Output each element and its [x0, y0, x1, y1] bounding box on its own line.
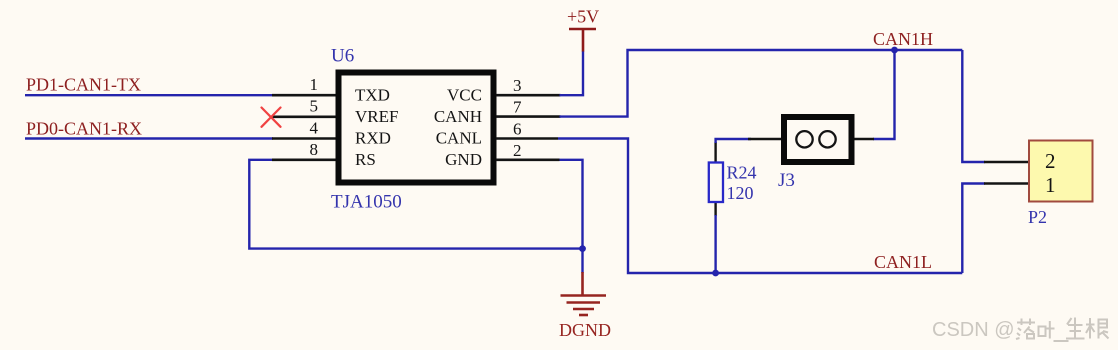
- wire PD0-CAN1-RX net: [25, 137, 273, 139]
- svg-text:RS: RS: [355, 150, 376, 169]
- svg-text:TJA1050: TJA1050: [331, 192, 402, 213]
- svg-text:PD0-CAN1-RX: PD0-CAN1-RX: [26, 119, 142, 139]
- junction RS/GND net: [579, 245, 586, 252]
- wire CANL down and across to CAN1L: [558, 139, 962, 274]
- watermark underscore: [1054, 340, 1069, 342]
- svg-text:GND: GND: [445, 150, 482, 169]
- pin 7 CANH stub: [496, 115, 561, 118]
- pin 4 RXD stub: [272, 137, 336, 140]
- svg-text:VCC: VCC: [447, 86, 482, 105]
- wire J3 right pin to CAN1H: [873, 50, 895, 139]
- svg-text:VREF: VREF: [355, 107, 398, 126]
- wire CANH up and across to CAN1H: [560, 50, 963, 117]
- svg-text:PD1-CAN1-TX: PD1-CAN1-TX: [26, 75, 141, 95]
- svg-text:DGND: DGND: [559, 320, 611, 340]
- jumper J3 body: [748, 117, 874, 162]
- 生: [1066, 318, 1085, 339]
- wire CAN1L to P2 pin 1: [962, 184, 985, 274]
- svg-text:TXD: TXD: [355, 86, 390, 105]
- svg-text:CAN1H: CAN1H: [873, 29, 933, 49]
- no-connect X on pin 5: [262, 108, 281, 127]
- svg-text:CANL: CANL: [436, 129, 482, 148]
- svg-text:+5V: +5V: [567, 7, 599, 27]
- wire GND pin to digital ground: [560, 160, 583, 273]
- resistor R24 body: [709, 142, 723, 273]
- svg-text:3: 3: [513, 76, 522, 95]
- pin 3 VCC stub: [496, 94, 561, 97]
- svg-text:2: 2: [1045, 149, 1056, 173]
- wire PD1-CAN1-TX net: [25, 94, 273, 96]
- pin 8 RS stub: [272, 159, 336, 162]
- svg-text:U6: U6: [331, 46, 354, 67]
- svg-text:RXD: RXD: [355, 129, 391, 148]
- P2 pin 2 stub: [984, 161, 1029, 164]
- wire RS to ground net: [249, 160, 582, 249]
- svg-text:4: 4: [310, 119, 319, 138]
- P2 pin 1 stub: [984, 182, 1029, 185]
- connector P2 body: [1029, 141, 1093, 202]
- watermark CJK glyph strokes: [1016, 318, 1109, 340]
- pin 6 CANL stub: [496, 137, 558, 140]
- wire R24 top to J3 left pin: [716, 139, 751, 143]
- pin 5 VREF stub: [270, 116, 336, 119]
- svg-text:CANH: CANH: [434, 107, 482, 126]
- svg-text:5: 5: [310, 97, 319, 116]
- svg-text:6: 6: [513, 120, 522, 139]
- ground DGND: [561, 272, 607, 315]
- svg-text:R24: R24: [727, 163, 757, 183]
- svg-text:120: 120: [727, 183, 754, 203]
- op-amp-style IC body U6: [339, 73, 494, 183]
- svg-text:8: 8: [310, 140, 319, 159]
- junction at CAN1L / R24 branch: [712, 270, 719, 277]
- 落: [1016, 319, 1035, 340]
- wire VCC to +5V: [560, 51, 584, 95]
- svg-text:CSDN @: CSDN @: [932, 319, 1015, 341]
- wire CAN1H to P2 pin 2: [962, 50, 985, 162]
- power symbol +5V: [569, 29, 596, 52]
- svg-text:2: 2: [513, 141, 522, 160]
- svg-text:1: 1: [310, 75, 319, 94]
- svg-text:1: 1: [1045, 173, 1056, 197]
- pin 1 TXD stub: [272, 94, 336, 97]
- 叶: [1039, 321, 1055, 339]
- 根: [1086, 318, 1109, 339]
- svg-text:CAN1L: CAN1L: [874, 252, 932, 272]
- svg-text:P2: P2: [1028, 207, 1047, 227]
- junction at CAN1H / J3 branch: [891, 47, 898, 54]
- pin 2 GND stub: [496, 159, 560, 162]
- svg-text:7: 7: [513, 98, 522, 117]
- svg-text:J3: J3: [778, 170, 795, 191]
